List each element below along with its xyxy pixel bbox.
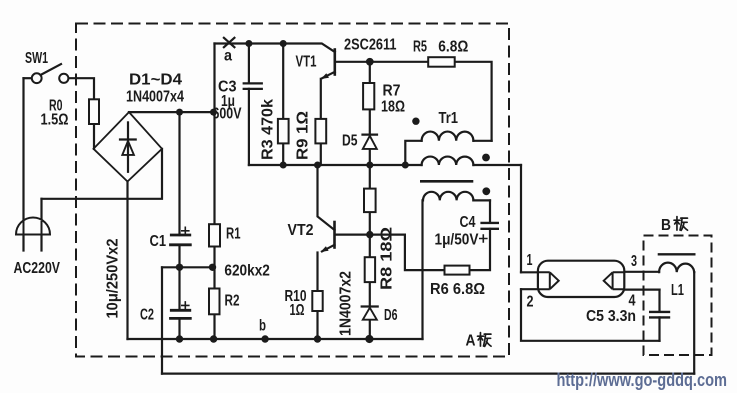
svg-text:3: 3 xyxy=(631,253,637,270)
svg-text:a: a xyxy=(224,48,232,65)
svg-text:R9 1Ω: R9 1Ω xyxy=(295,111,312,160)
svg-text:D5: D5 xyxy=(342,133,358,150)
svg-text:R3 470k: R3 470k xyxy=(260,99,277,160)
svg-text:b: b xyxy=(259,317,266,334)
svg-text:2SC2611: 2SC2611 xyxy=(344,37,397,54)
svg-text:18Ω: 18Ω xyxy=(381,98,405,115)
svg-text:L1: L1 xyxy=(671,282,684,299)
svg-text:VT1: VT1 xyxy=(296,54,317,71)
svg-text:1N4007x4: 1N4007x4 xyxy=(126,89,184,106)
svg-text:R7: R7 xyxy=(383,83,401,100)
svg-text:600V: 600V xyxy=(213,105,242,122)
svg-text:VT2: VT2 xyxy=(288,222,314,239)
svg-text:10μ/250Vx2: 10μ/250Vx2 xyxy=(105,238,122,318)
svg-text:R8 18Ω: R8 18Ω xyxy=(379,227,396,290)
svg-text:R2: R2 xyxy=(225,292,240,309)
svg-text:C5 3.3n: C5 3.3n xyxy=(586,308,636,325)
svg-text:1N4007x2: 1N4007x2 xyxy=(338,271,355,336)
svg-text:1.5Ω: 1.5Ω xyxy=(41,112,69,129)
svg-text:R1: R1 xyxy=(226,225,241,242)
svg-text:D6: D6 xyxy=(384,307,398,324)
svg-text:A: A xyxy=(466,333,476,350)
svg-text:AC220V: AC220V xyxy=(14,260,61,277)
svg-text:R6 6.8Ω: R6 6.8Ω xyxy=(430,281,485,298)
svg-text:R5: R5 xyxy=(413,39,427,56)
svg-text:1: 1 xyxy=(527,252,533,269)
svg-text:1Ω: 1Ω xyxy=(290,302,305,319)
svg-text:C2: C2 xyxy=(140,307,154,324)
svg-text:http://www.go-gddq.com: http://www.go-gddq.com xyxy=(557,370,728,390)
svg-text:1μ/50V: 1μ/50V xyxy=(435,232,479,249)
svg-text:C4: C4 xyxy=(460,214,476,231)
svg-text:620kx2: 620kx2 xyxy=(224,262,270,279)
svg-text:C1: C1 xyxy=(150,233,167,250)
svg-text:SW1: SW1 xyxy=(25,50,48,67)
svg-text:B: B xyxy=(661,217,671,234)
svg-text:D1~D4: D1~D4 xyxy=(129,72,182,89)
svg-text:6.8Ω: 6.8Ω xyxy=(438,39,468,56)
svg-text:Tr1: Tr1 xyxy=(439,110,459,127)
svg-text:2: 2 xyxy=(527,293,534,310)
svg-text:4: 4 xyxy=(629,293,636,310)
